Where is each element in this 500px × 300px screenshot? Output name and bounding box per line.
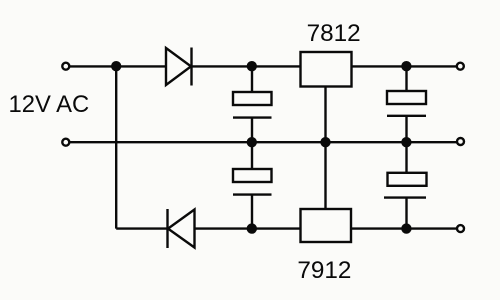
- regulator U1 7812: [301, 52, 352, 87]
- diode D1: [166, 48, 192, 86]
- regulator U2 7912: [301, 209, 352, 242]
- wire left vertical drop: [115, 66, 117, 228]
- capacitor C1: [233, 66, 272, 142]
- terminal AC input bottom: [62, 139, 69, 146]
- terminal common middle: [457, 138, 464, 145]
- svg-text:7812: 7812: [307, 20, 361, 47]
- capacitor C2: [233, 142, 272, 228]
- capacitor C4: [384, 142, 427, 228]
- wire top rail left: [70, 65, 166, 67]
- node top-left junction: [111, 61, 121, 71]
- wire U1 ground pin: [324, 87, 326, 143]
- node middle of left caps: [247, 137, 257, 147]
- svg-text:12V AC: 12V AC: [9, 91, 90, 118]
- node bottom of C2: [247, 223, 257, 233]
- wire U2 output: [351, 227, 457, 229]
- wire bottom rail left: [116, 227, 167, 229]
- label 7812: [307, 20, 361, 47]
- capacitor C3: [387, 66, 426, 142]
- node center ground junction: [320, 137, 330, 147]
- terminal +12V output: [457, 63, 464, 70]
- node middle of right caps: [401, 137, 411, 147]
- label 7912: [297, 257, 351, 284]
- node top of C3: [401, 61, 411, 71]
- svg-text:7912: 7912: [297, 257, 351, 284]
- wire bottom rail to U2: [195, 227, 301, 229]
- wire U1 output: [352, 65, 457, 67]
- wire middle rail: [70, 141, 457, 143]
- wire U2 input pin: [324, 142, 326, 209]
- label 12V AC: [9, 91, 90, 118]
- node bottom of C4: [401, 223, 411, 233]
- wire top rail right of D1: [192, 65, 301, 67]
- node top of C1: [247, 61, 257, 71]
- terminal AC input top: [62, 63, 69, 70]
- diode D2: [168, 209, 195, 248]
- terminal -12V output: [457, 225, 464, 232]
